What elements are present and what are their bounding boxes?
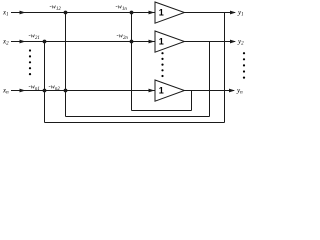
svg-text:1: 1 [159, 36, 164, 46]
svg-text:1: 1 [159, 85, 164, 95]
arrowhead y1 output [230, 11, 236, 15]
wire feedback bottom horizontal y2 [66, 116, 210, 118]
wire feedback vertical v3 from yn into rows 1 and 2 [131, 13, 133, 111]
svg-text:1: 1 [159, 7, 164, 17]
op-amp U2 gain 1 [155, 31, 184, 52]
wire xn input row [11, 90, 155, 92]
arrowhead into amplifier U1 [149, 11, 155, 15]
ellipsis dots between x2 and xn [29, 49, 31, 51]
arrowhead x2 input [20, 40, 26, 44]
wire feedback bottom horizontal yn [132, 110, 192, 112]
junction dot weight -w2n node [130, 40, 134, 44]
arrowhead y2 output [230, 40, 236, 44]
wire feedback vertical v1 from y1 into rows 2 and n [44, 42, 46, 123]
junction dot weight -w1n node [130, 11, 134, 15]
junction dot weight -wn1 node [43, 89, 47, 93]
wire feedback vertical v2 from y2 into rows 1 and n [65, 13, 67, 117]
wire x1 input row [11, 12, 155, 14]
arrowhead into amplifier Un [149, 89, 155, 93]
ellipsis dots between amplifiers U2 and Un [161, 52, 163, 54]
ellipsis dots between y2 and yn [243, 52, 245, 54]
op-amp U1 gain 1 [155, 2, 184, 23]
wire x2 input row [11, 41, 155, 43]
junction dot weight -w21 node [43, 40, 47, 44]
arrowhead x1 input [20, 11, 26, 15]
arrowhead into amplifier U2 [149, 40, 155, 44]
wire y1 output row [185, 12, 236, 14]
wire feedback drop from y1 output [224, 13, 226, 123]
wire yn output row [185, 90, 235, 92]
junction dot weight -wn2 node [64, 89, 68, 93]
wire feedback drop from yn output [191, 91, 193, 111]
wire feedback drop from y2 output [209, 42, 211, 117]
arrowhead yn output [229, 89, 235, 93]
arrowhead xn input [20, 89, 26, 93]
junction dot weight -w12 node [64, 11, 68, 15]
op-amp Un gain 1 [155, 80, 184, 101]
wire feedback bottom horizontal y1 [45, 122, 225, 124]
wire y2 output row [185, 41, 236, 43]
